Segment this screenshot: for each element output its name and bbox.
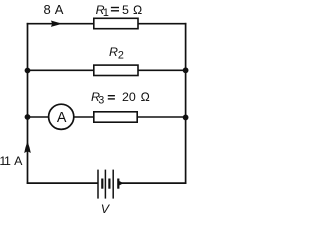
node left R3 junction xyxy=(25,114,31,120)
battery V plate tall 1 xyxy=(97,170,99,199)
node right R3 junction xyxy=(183,115,189,121)
resistor R2 xyxy=(94,65,138,75)
node right R2 junction xyxy=(183,67,189,73)
svg-text:20: 20 xyxy=(122,90,136,104)
battery terminal arrow xyxy=(119,181,123,186)
ammeter A xyxy=(49,104,74,129)
battery plate short 1 xyxy=(101,179,103,189)
battery plate tall 3 xyxy=(112,170,114,199)
svg-text:2: 2 xyxy=(118,49,124,61)
svg-text:A: A xyxy=(57,110,67,126)
svg-text:R: R xyxy=(109,45,118,59)
svg-text:A: A xyxy=(55,2,64,17)
battery plate short 3 xyxy=(117,179,119,189)
svg-text:8: 8 xyxy=(44,2,51,17)
battery plate tall 2 xyxy=(104,170,106,199)
svg-text:1: 1 xyxy=(4,154,11,168)
current arrow 11 A xyxy=(24,141,31,153)
wire branch R3 xyxy=(27,116,186,118)
svg-text:3: 3 xyxy=(98,94,104,106)
svg-text:5: 5 xyxy=(122,3,129,17)
wire middle branch R2 xyxy=(27,69,186,71)
svg-text:1: 1 xyxy=(103,7,109,19)
wire top xyxy=(27,23,187,25)
wire right rail xyxy=(185,23,187,184)
wire bottom left xyxy=(27,182,98,184)
wire left rail xyxy=(27,23,29,184)
battery plate short 2 xyxy=(108,179,110,189)
resistor R1 xyxy=(94,18,138,28)
svg-text:Ω: Ω xyxy=(133,3,143,17)
node left R2 junction xyxy=(25,68,31,74)
current arrow 8 A xyxy=(51,21,62,27)
resistor R3 xyxy=(94,112,137,122)
wire bottom right xyxy=(118,182,186,184)
svg-text:A: A xyxy=(14,154,23,168)
svg-text:Ω: Ω xyxy=(141,90,151,104)
